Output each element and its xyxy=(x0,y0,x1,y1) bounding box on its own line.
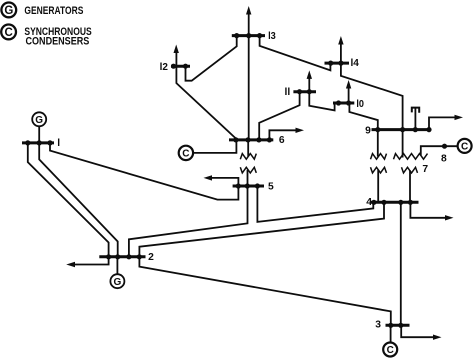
junction dots bus 14 xyxy=(328,61,343,66)
bus 14 bar xyxy=(325,62,350,65)
junction dots bus 9 xyxy=(375,127,431,132)
svg-text:l3: l3 xyxy=(268,31,276,42)
bus 12 bar xyxy=(171,65,190,68)
load arrow at bus 14 xyxy=(338,36,343,62)
svg-text:l2: l2 xyxy=(160,62,169,73)
bus 9 bar xyxy=(372,128,431,131)
bus 10 bar xyxy=(333,102,354,105)
wire line 6-13 xyxy=(248,37,250,139)
junction dots bus 8 and bus 9 shunt xyxy=(442,144,447,149)
wire line 9-14 xyxy=(341,65,403,129)
svg-text:9: 9 xyxy=(365,125,371,136)
wire line 6-11 xyxy=(259,93,299,139)
svg-text:l: l xyxy=(57,138,60,149)
wire line 6-12 xyxy=(176,67,236,138)
junction dots bus 6 xyxy=(233,137,272,142)
synchronous condenser C at bus 3 xyxy=(383,327,397,357)
shunt capacitor at bus 9 xyxy=(412,108,419,129)
wire line 10-11 xyxy=(309,93,334,110)
bus 2 bar xyxy=(99,255,145,258)
wire line 13-14 xyxy=(260,37,331,70)
bus 3 bar xyxy=(386,324,410,327)
svg-text:CONDENSERS: CONDENSERS xyxy=(26,35,90,47)
legend label SYNCHRONOUS CONDENSERS xyxy=(24,26,91,48)
svg-text:C: C xyxy=(182,149,189,160)
generator G at bus 1 xyxy=(32,112,46,142)
junction dots bus 13 xyxy=(234,33,262,38)
load arrow at bus 11 xyxy=(307,70,312,90)
load arrow at bus 4 xyxy=(410,204,453,221)
load arrow at bus 3 xyxy=(401,327,441,340)
legend generator symbol xyxy=(1,2,16,17)
load arrow at bus 10 xyxy=(346,80,351,102)
junction dots bus 2 xyxy=(106,254,142,259)
svg-text:ll: ll xyxy=(285,87,291,98)
wire line 9-10 xyxy=(349,104,377,128)
wire line 3-4 xyxy=(400,204,402,324)
junction dots bus 11 xyxy=(297,89,312,94)
svg-text:7: 7 xyxy=(422,164,428,175)
synchronous condenser C at bus 6 xyxy=(179,141,237,160)
bus 5 bar xyxy=(233,185,264,188)
transformer 4-9 winding lower xyxy=(371,167,387,201)
svg-text:G: G xyxy=(114,277,122,288)
svg-text:3: 3 xyxy=(375,320,381,331)
junction dots bus 10 xyxy=(336,100,351,105)
junction dots bus 12 xyxy=(171,64,188,69)
wire line 2-4 xyxy=(139,204,384,256)
svg-text:GENERATORS: GENERATORS xyxy=(24,5,83,17)
bus 4 bar xyxy=(370,201,419,204)
wire line 2-5 xyxy=(129,187,248,255)
wire line 12-13 xyxy=(186,37,237,81)
load arrow at bus 5 xyxy=(204,175,239,185)
svg-text:G: G xyxy=(4,5,13,17)
load arrow at bus 6 xyxy=(269,128,304,139)
generator G at bus 2 xyxy=(110,258,124,288)
bus 13 bar xyxy=(232,34,265,37)
load arrow at bus 2 xyxy=(66,258,108,267)
svg-text:C: C xyxy=(4,27,12,39)
transformer 5-6 winding upper xyxy=(240,141,256,159)
legend synchronous condenser symbol xyxy=(1,25,16,40)
bus 8 connection wire to winding xyxy=(421,146,458,155)
synchronous condenser C at bus 8 xyxy=(458,139,472,153)
svg-text:C: C xyxy=(461,142,468,153)
svg-text:C: C xyxy=(387,345,394,356)
junction dots bus 1 xyxy=(25,140,52,145)
svg-text:2: 2 xyxy=(148,252,154,263)
wire line 4-5 xyxy=(257,187,373,222)
wire line 1-2 circuit a xyxy=(28,144,109,255)
transformer 7-9 / 7-8 winding (node 7, upper wide) xyxy=(394,131,428,159)
svg-text:G: G xyxy=(35,115,43,126)
junction dots bus 3 xyxy=(388,323,403,328)
wire line 1-5 xyxy=(50,144,238,199)
load arrow at bus 13 xyxy=(246,6,251,34)
bus 1 bar xyxy=(22,141,54,144)
junction dots bus 5 xyxy=(236,183,260,188)
svg-text:8: 8 xyxy=(441,153,447,164)
svg-text:6: 6 xyxy=(279,135,285,146)
transformer 5-6 winding lower xyxy=(240,167,256,184)
bus 11 bar xyxy=(293,90,316,93)
svg-text:l4: l4 xyxy=(351,58,360,69)
bus 6 bar xyxy=(229,138,273,141)
svg-text:l0: l0 xyxy=(356,99,364,110)
wire line 2-3 xyxy=(139,258,390,324)
junction dots bus 4 xyxy=(371,200,413,205)
wire line 1-2 circuit b xyxy=(39,144,118,255)
load arrow at bus 12 xyxy=(174,45,179,66)
svg-text:5: 5 xyxy=(268,182,274,193)
load arrow at bus 9 xyxy=(429,115,463,129)
transformer 4-7 winding lower xyxy=(402,167,418,201)
transformer 4-9 winding upper xyxy=(371,131,387,159)
